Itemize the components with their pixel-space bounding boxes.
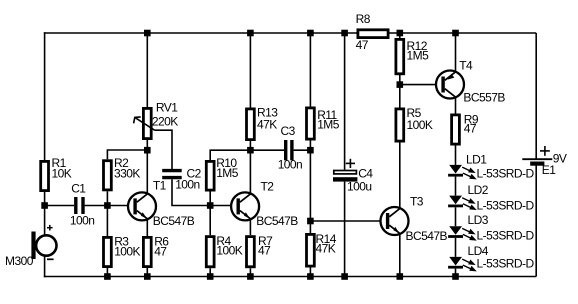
node C R11 bottom [307,147,314,154]
resistor R11 [307,108,315,139]
potentiometer RV1 body [143,108,151,138]
node R2 R3 T1 base [104,202,111,209]
svg-text:47: 47 [464,122,477,136]
node top rail R11 [307,30,314,37]
wire R12 top lead [399,33,401,39]
mic minus sign [47,258,54,260]
svg-text:100n: 100n [70,213,95,227]
node bottom rail C4 [341,273,348,280]
node top rail C4 [341,30,348,37]
svg-text:L-53SRD-D: L-53SRD-D [477,199,535,213]
wire node C down to node D [309,150,311,221]
svg-text:RV1: RV1 [156,101,178,115]
wire LD3 to LD4 [455,238,457,257]
svg-text:C1: C1 [71,181,86,195]
wire LD2 to LD3 [455,207,457,226]
wire R14 top lead [309,221,311,233]
wire R2 bottom lead [106,191,108,205]
svg-text:C4: C4 [358,166,373,180]
microphone M300 [31,225,56,259]
resistor R4 [206,237,214,267]
resistor R14 [307,234,315,266]
battery plus sign [540,146,550,156]
node D R14 top [307,218,314,225]
svg-text:LD3: LD3 [468,213,489,227]
capacitor C1 [76,197,83,214]
wire R10 top to node B [210,150,250,160]
svg-text:BC557B: BC557B [463,90,505,104]
node top rail R13 [247,30,254,37]
wire LD1 to LD2 [455,177,457,196]
wire base row left (node to C1) [45,205,75,207]
wire T4 base row [400,84,436,86]
transistor T1 (BC547B NPN) [128,192,156,220]
wire R13 top lead [249,33,251,108]
wire R13 bottom lead [249,141,251,150]
svg-text:100n: 100n [175,177,200,191]
node top rail R12 [397,30,404,37]
node bottom rail T3 [397,273,404,280]
svg-text:BC547B: BC547B [153,214,195,228]
node R10 bottom [207,202,214,209]
svg-text:100u: 100u [347,179,372,193]
svg-text:47: 47 [154,245,167,259]
node C1 mic R1 [41,202,48,209]
svg-text:220K: 220K [152,115,178,129]
svg-text:M300: M300 [5,254,34,268]
wire R10 bottom lead [209,192,211,206]
node bottom rail R3 [104,273,111,280]
svg-text:T4: T4 [459,59,473,73]
svg-text:330K: 330K [114,167,140,181]
svg-text:BC547B: BC547B [256,214,298,228]
wire R1 bottom to mic [44,192,46,236]
resistor R5 [396,109,404,141]
resistor R3 [104,237,112,266]
svg-text:C3: C3 [281,124,296,138]
wire C3 to node C [294,149,311,151]
wire R4 top lead [209,206,211,236]
svg-text:47: 47 [356,38,369,52]
wire RV1 bottom / T1 collector [146,140,148,194]
wire R11 bottom lead [309,141,311,151]
wire R3 top lead [106,206,108,237]
wire LD4 to bottom rail [455,269,457,277]
svg-text:L-53SRD-D: L-53SRD-D [477,167,535,181]
wire right rail lower (battery to bottom rail) [535,166,537,277]
resistor R8 (horizontal) [358,30,388,38]
resistor R6 [143,237,151,266]
node bottom rail R4 [207,273,214,280]
wire R4 bottom lead [209,268,211,276]
svg-text:10K: 10K [52,167,72,181]
node top rail RV1 [144,30,151,37]
svg-text:T1: T1 [153,179,167,193]
wire T4 emitter to top rail [455,33,457,72]
svg-text:BC547B: BC547B [406,229,448,243]
svg-text:T2: T2 [261,180,275,194]
svg-text:100K: 100K [407,118,433,132]
svg-text:1M5: 1M5 [317,118,340,132]
svg-text:100K: 100K [114,245,140,259]
node R12 R5 T4 base [397,81,404,88]
resistor R2 [104,161,112,190]
wire T1 emitter to R6 [146,219,148,236]
wire RV1 top lead [146,33,148,107]
svg-text:L-53SRD-D: L-53SRD-D [477,229,535,243]
wire R3 bottom lead [106,268,108,277]
node dots [41,30,459,280]
wire T3 emitter to bottom rail [399,234,401,277]
transistor T2 (BC547B NPN) [231,192,259,220]
svg-text:47K: 47K [257,118,277,132]
svg-text:LD1: LD1 [466,153,487,167]
wire T2 emitter to R7 [249,219,251,235]
svg-text:1M5: 1M5 [216,166,239,180]
svg-text:47: 47 [258,244,271,258]
wire T2 collector [249,150,251,194]
resistor R13 [247,109,255,140]
wire R6 bottom lead [146,268,148,277]
wire RV1 wiper to C2 top [155,130,172,169]
wire left rail (R1 column) [44,32,46,160]
svg-text:100K: 100K [216,244,242,258]
wire C4 top lead [344,33,346,170]
LED LD1 [448,165,475,179]
svg-text:R8: R8 [356,12,371,26]
resistor R12 [396,39,404,73]
svg-text:LD2: LD2 [468,183,489,197]
wire C2 bottom to T2 base row [172,179,232,205]
wire bottom rail [44,276,536,278]
transistor T4 (BC557B PNP) [436,71,464,99]
wire R14 bottom lead [309,268,311,277]
svg-text:1M5: 1M5 [407,49,430,63]
wire T4 collector to R9 [455,97,457,113]
LED LD3 [448,226,475,240]
wire C4 bottom lead [344,182,346,277]
C4 plus sign [346,159,355,168]
transistor T3 (BC547B NPN) [381,207,409,235]
capacitor C4 (electrolytic) [333,159,357,182]
wire R12 to R5 [399,75,401,108]
resistor R9 [452,115,460,144]
svg-text:T3: T3 [410,195,424,209]
battery E1 [522,146,552,166]
wire C1 to T1 base [85,205,129,207]
potentiometer RV1 wiper arrow [134,117,155,130]
svg-text:E1: E1 [542,163,556,177]
node top rail T4 [452,30,459,37]
capacitor C2 [162,171,182,178]
node bottom rail R6 [144,273,151,280]
svg-text:47K: 47K [316,242,336,256]
mic plus sign [47,225,53,231]
wire right rail upper (to battery) [535,33,537,159]
wire mic to bottom rail [44,256,46,277]
node B T2 collector [247,147,254,154]
wire R7 bottom lead [249,268,251,276]
resistor R10 [206,161,214,190]
wire R2 top to node A [107,150,147,159]
wire node B to C3 [250,149,284,151]
resistor R7 [247,237,255,267]
node bottom rail R7 [247,273,254,280]
LED LD2 [448,196,475,210]
svg-text:L-53SRD-D: L-53SRD-D [477,257,535,271]
wire top rail [44,32,536,34]
capacitor C3 [286,140,292,160]
wire R9 to LD1 [455,146,457,165]
wire R5 bottom / T3 collector [399,143,401,209]
LED LD4 [448,257,475,271]
wire T3 base row [310,220,380,222]
node bottom rail LD4 [452,273,459,280]
svg-text:100n: 100n [278,158,303,172]
wire R11 top lead [309,33,311,107]
resistor R1 [41,161,49,190]
node bottom rail R14 [307,273,314,280]
node A RV1 bottom [144,147,151,154]
